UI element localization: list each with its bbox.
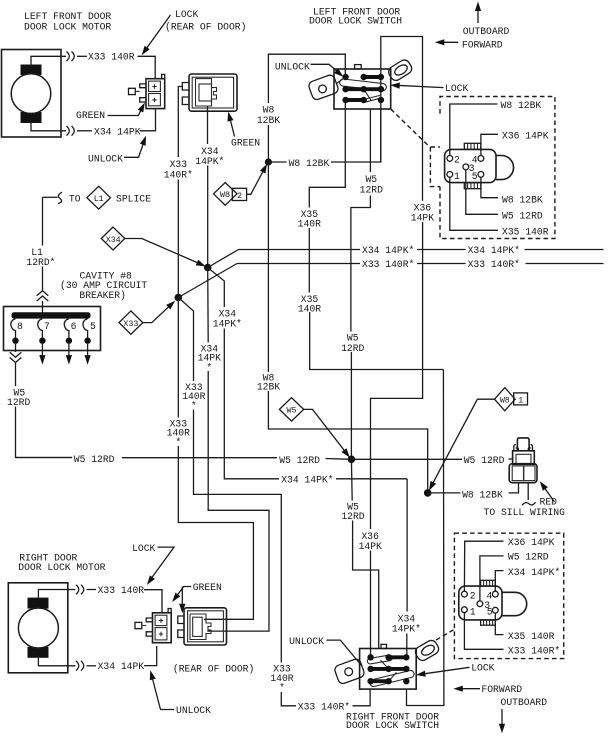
connector C1 pin 5 — [478, 172, 484, 178]
svg-text:2: 2 — [454, 155, 460, 166]
label W5 12RD mid — [339, 332, 366, 354]
connector C2 pin 4 — [492, 591, 498, 597]
svg-text:1: 1 — [470, 606, 476, 617]
splice symbol X33 — [119, 298, 177, 334]
svg-text:12BK: 12BK — [257, 382, 280, 393]
svg-text:W5 12RD: W5 12RD — [74, 454, 115, 465]
switch S1 contact dots — [342, 74, 384, 103]
pin 1 lead X33 140R* — [464, 612, 503, 649]
forward arrow (top) — [435, 39, 503, 50]
label L1 12RD* — [25, 246, 59, 268]
switch S2 left ear hole — [345, 668, 353, 676]
wire X35 140R from switch col1 bottom — [309, 100, 345, 208]
svg-text:*: * — [206, 362, 212, 373]
wire X34 motor lead (bottom) — [38, 658, 75, 666]
wire X33 140R to connector — [138, 56, 156, 78]
svg-text:140R: 140R — [298, 303, 321, 314]
circuit breaker block — [4, 307, 101, 351]
svg-text:OUTBOARD: OUTBOARD — [463, 26, 510, 37]
svg-text:14PK*: 14PK* — [392, 624, 421, 635]
label X33 140R* (1) — [360, 258, 417, 270]
wire X34 branch via diagonal to staircase — [208, 268, 225, 308]
pin 1 lead X35 140R — [450, 177, 498, 230]
svg-text:W5 12RD: W5 12RD — [464, 455, 505, 466]
mounting plate rectangle — [381, 37, 423, 201]
wire W5 12RD trunk vertical — [350, 331, 353, 458]
wire X36 into bottom switch — [370, 551, 372, 658]
svg-text:OUTBOARD: OUTBOARD — [501, 697, 548, 708]
wire X34 14PK to connector — [140, 109, 156, 131]
connector C2 pin 2 — [462, 591, 468, 597]
svg-text:1: 1 — [518, 396, 523, 405]
breaker pin 6 hook — [64, 319, 69, 338]
forward arrow (bottom) — [453, 684, 522, 695]
svg-text:X35 140R: X35 140R — [502, 227, 549, 238]
label X33 140R * (x178) — [166, 418, 193, 448]
svg-text:6: 6 — [71, 321, 77, 332]
label: left front door door lock motor — [24, 11, 111, 33]
switch S2 body — [360, 649, 417, 690]
breaker pin 7 hook — [38, 319, 43, 338]
pointer GREEN (bottom) — [170, 582, 222, 613]
svg-text:W5 12RD: W5 12RD — [279, 455, 320, 466]
svg-text:GREEN: GREEN — [76, 110, 105, 121]
switch S1 contact bar row3 — [346, 98, 364, 102]
wire W5 12RD from breaker pin 8 — [15, 344, 17, 352]
svg-text:X34 14PK: X34 14PK — [94, 127, 141, 138]
svg-text:LOCK: LOCK — [132, 543, 155, 554]
svg-text:TO SILL WIRING: TO SILL WIRING — [484, 507, 566, 518]
connector chevrons on L1 wire — [37, 291, 49, 301]
diagonal from node A to X34 feed wire — [208, 250, 239, 268]
connector C2 pin 1 — [462, 607, 468, 613]
svg-text:12RD: 12RD — [341, 343, 364, 354]
svg-text:SPLICE: SPLICE — [116, 194, 151, 205]
label X34 14PK* (2) — [466, 244, 525, 256]
connector C1 body — [445, 143, 514, 188]
wire X33 140R — [77, 55, 87, 57]
label X33 140R * (x193) — [181, 382, 208, 412]
motor B1 brush top — [21, 65, 42, 76]
pointer UNLOCK (motor X34 wire) — [88, 135, 149, 165]
wire X33 140R* horizontal — [237, 263, 604, 265]
svg-text:L1: L1 — [94, 195, 104, 204]
svg-text:X35 140R: X35 140R — [508, 631, 555, 642]
connector chevrons on X33 lead — [67, 52, 75, 62]
wire X34 down to bottom switch — [406, 479, 408, 612]
switch S2 left ear — [334, 658, 366, 685]
wire W8 12BK horizontal to col3 riser — [268, 161, 286, 163]
svg-text:14PK: 14PK — [359, 541, 382, 552]
connector chevrons on X34 lead — [67, 126, 75, 136]
wire X34 14PK — [77, 130, 92, 132]
svg-text:1: 1 — [454, 171, 460, 182]
motor-side connector (right door) — [135, 609, 171, 643]
svg-text:14PK*: 14PK* — [195, 156, 224, 167]
svg-text:140R: 140R — [298, 218, 321, 229]
pointer LOCK (rear of door) — [139, 9, 246, 57]
pin 4 lead X34 14PK* — [495, 571, 503, 592]
svg-text:12RD: 12RD — [7, 397, 30, 408]
svg-text:GREEN: GREEN — [231, 138, 260, 149]
pointer GREEN (harness connector) — [225, 111, 260, 149]
switch S1 body — [334, 69, 391, 109]
motor B1 brush bottom — [21, 112, 42, 123]
motor B2 armature circle — [18, 608, 58, 648]
wire X33 140R harness drop — [178, 87, 182, 158]
pointer RED — [537, 479, 557, 507]
label X34 14PK* (1) — [360, 244, 417, 256]
switch S1 top tab — [355, 65, 362, 69]
sill connector leads — [527, 483, 529, 500]
svg-text:W5: W5 — [287, 407, 297, 416]
wire X35 down right side to bottom switch — [407, 370, 444, 706]
svg-text:X33 140R*: X33 140R* — [298, 702, 350, 713]
svg-text:LOCK: LOCK — [445, 83, 468, 94]
wire X34 14PK harness drop — [207, 106, 209, 144]
svg-text:LOCK: LOCK — [471, 662, 494, 673]
svg-text:X33 140R: X33 140R — [88, 52, 135, 63]
junction node 1 (W5) — [348, 456, 356, 464]
svg-text:(REAR OF DOOR): (REAR OF DOOR) — [173, 663, 254, 674]
pin 3 lead W5 12RD — [466, 170, 498, 215]
svg-text:X33: X33 — [170, 159, 188, 170]
label X34 14PK* (2-line) — [213, 308, 243, 330]
switch S1 contact bar row1 — [364, 75, 381, 79]
motor B1 housing — [2, 50, 62, 138]
breaker pin 8 hook — [11, 319, 16, 338]
svg-text:X33 140R: X33 140R — [98, 585, 145, 596]
diagonal from node B to X33 feed wire — [178, 264, 237, 298]
connector C1 pin 4 — [478, 156, 484, 162]
wire W5 12RD from switch col2 — [369, 109, 371, 172]
wire W8 12BK to sill connector — [428, 492, 461, 494]
svg-text:14PK: 14PK — [411, 213, 434, 224]
pin 3 lead W5 12RD — [480, 556, 504, 601]
label X33 140R* — [162, 158, 194, 181]
dashed box outline — [440, 97, 555, 239]
svg-text:DOOR LOCK MOTOR: DOOR LOCK MOTOR — [24, 22, 111, 33]
pointer LOCK (bottom switch) — [415, 662, 494, 678]
svg-text:W8: W8 — [220, 191, 230, 200]
wire X33 motor lead — [31, 56, 66, 64]
connector C1 pin 3 — [463, 164, 469, 170]
wire W8 12BK junction to sill — [267, 162, 269, 372]
wire W8 12BK switch col1 to junction — [268, 54, 345, 103]
svg-text:UNLOCK: UNLOCK — [88, 154, 123, 165]
label X34 14PK* on bottom feed — [279, 474, 336, 486]
label X34 14PK* — [194, 145, 226, 168]
svg-text:12RD: 12RD — [341, 511, 364, 522]
wire X34 motor lead — [31, 123, 66, 131]
svg-text:140R*: 140R* — [164, 170, 193, 181]
symbol W8 splice diamond with 2 — [214, 162, 270, 205]
svg-text:2: 2 — [237, 192, 242, 201]
outboard arrow (bottom) — [499, 697, 547, 733]
wire X36 riser (plate right edge) with label — [422, 199, 424, 202]
junction node B (X33 tap) — [175, 294, 183, 302]
svg-text:UNLOCK: UNLOCK — [176, 705, 211, 716]
wire X33 140R* into switch bottom — [281, 692, 296, 706]
svg-text:W8 12BK: W8 12BK — [501, 100, 542, 111]
dashed box outline (bottom) — [454, 533, 563, 658]
pointer UNLOCK (bottom motor) — [147, 669, 211, 716]
svg-text:BREAKER): BREAKER) — [79, 290, 126, 301]
motor B2 brush top — [28, 598, 49, 609]
pointer UNLOCK (switch) — [275, 62, 345, 80]
motor B2 housing — [8, 583, 68, 673]
pin 2 lead X36 14PK — [464, 541, 503, 591]
pin 5 lead W8 12BK — [481, 177, 498, 198]
svg-text:X36 14PK: X36 14PK — [502, 131, 549, 142]
label W5 12RD upper — [360, 173, 385, 196]
label: right front door door lock switch — [346, 711, 439, 731]
wire X33 motor lead (bottom) — [38, 590, 75, 598]
junction node W8 — [265, 158, 272, 165]
svg-text:X34 14PK*: X34 14PK* — [281, 475, 333, 486]
svg-text:W8: W8 — [500, 397, 510, 406]
label X33 140R * (staircase x281) — [269, 663, 296, 694]
outboard arrow (top) — [463, 2, 510, 38]
wire X33 branch via diagonal to staircase — [178, 298, 193, 382]
switch S2 right ear — [413, 638, 440, 662]
connector C2 body — [459, 580, 527, 625]
motor-side connector (left front door) — [129, 74, 165, 108]
svg-text:X34 14PK*: X34 14PK* — [362, 245, 414, 256]
label X34 14PK* (bottom switch) — [392, 612, 421, 635]
label X36 14PK right — [407, 201, 438, 224]
label cavity #8 — [60, 271, 147, 301]
svg-text:7: 7 — [44, 321, 50, 332]
breaker pin 7 arrow — [41, 344, 43, 359]
svg-text:(REAR OF DOOR): (REAR OF DOOR) — [165, 22, 246, 33]
svg-text:X33 140R*: X33 140R* — [508, 646, 560, 657]
svg-text:*: * — [279, 683, 285, 694]
pin 5 lead X35 140R — [495, 613, 503, 635]
pin 4 lead X36 14PK — [481, 134, 498, 155]
label X35 140R upper — [295, 208, 325, 229]
switch S2 contact diagonals — [367, 655, 396, 681]
breaker bus bar — [12, 312, 91, 318]
svg-text:*: * — [191, 400, 197, 411]
label W5 12RD (right, to sill) — [462, 454, 510, 466]
svg-text:W5 12RD: W5 12RD — [502, 211, 543, 222]
motor B1 armature circle — [11, 74, 51, 114]
wire X34 branch from node A down — [207, 268, 210, 343]
connector C1 pin 2 — [447, 156, 453, 162]
svg-text:W8 12BK: W8 12BK — [462, 490, 503, 501]
svg-text:12BK: 12BK — [257, 115, 280, 126]
label W5 12RD lower — [340, 501, 366, 522]
breaker pin 5 arrow — [87, 344, 89, 359]
junction node A (X34 tap) — [204, 264, 212, 272]
junction node 2 (W8) — [424, 489, 432, 497]
svg-text:X33 140R*: X33 140R* — [362, 259, 414, 270]
harness GREEN connector (right door) — [178, 608, 227, 645]
svg-text:LEFT FRONT DOOR: LEFT FRONT DOOR — [24, 11, 111, 22]
wire L1 12RD vertical — [42, 197, 44, 245]
label W5 12RD (center) — [278, 454, 326, 467]
label: left front door door lock switch — [309, 7, 402, 27]
svg-text:FORWARD: FORWARD — [481, 684, 522, 695]
splice symbol X34 — [101, 227, 207, 269]
svg-text:UNLOCK: UNLOCK — [275, 62, 310, 73]
pointer LOCK (bottom motor) — [132, 543, 174, 587]
pin 2 lead W8 12BK — [450, 104, 498, 156]
svg-text:X34 14PK*: X34 14PK* — [508, 567, 560, 578]
label X35 140R lower — [295, 293, 325, 314]
switch S2 actuator capsule — [370, 670, 414, 686]
svg-text:*: * — [175, 437, 181, 448]
svg-text:DOOR LOCK SWITCH: DOOR LOCK SWITCH — [346, 720, 439, 731]
switch S1 right ear — [387, 58, 414, 82]
svg-text:GREEN: GREEN — [193, 582, 222, 593]
svg-text:X34 14PK: X34 14PK — [98, 661, 145, 672]
svg-text:12RD*: 12RD* — [26, 257, 55, 268]
switch S2 top tab — [381, 644, 387, 648]
splice symbol W5 with arrow — [279, 398, 352, 460]
label: right door door lock motor — [18, 553, 105, 574]
switch S1 left ear — [308, 74, 340, 101]
svg-text:12RD: 12RD — [360, 185, 383, 196]
svg-text:W8 12BK: W8 12BK — [502, 195, 543, 206]
breaker pin 6 arrow — [68, 344, 70, 359]
switch S2 contact bar row1 — [389, 655, 407, 659]
switch S1 left ear hole — [319, 85, 327, 93]
breaker pin dots — [12, 338, 91, 344]
svg-text:FORWARD: FORWARD — [462, 40, 503, 51]
svg-text:RED: RED — [540, 497, 558, 508]
switch S1 contact bar row2 — [346, 87, 381, 91]
svg-text:8: 8 — [17, 321, 23, 332]
svg-text:14PK*: 14PK* — [213, 319, 242, 330]
pointer LOCK (switch) — [390, 82, 468, 94]
wire W5 below node 1 — [350, 459, 353, 500]
label X34 14PK * (3-line) — [196, 343, 223, 373]
svg-text:X33 140R*: X33 140R* — [468, 259, 520, 270]
switch S2 contact dots — [367, 654, 409, 684]
svg-text:X36 14PK: X36 14PK — [508, 537, 555, 548]
svg-text:W8 12BK: W8 12BK — [289, 158, 330, 169]
splice symbol L1 — [87, 186, 111, 209]
label W8 12BK mid — [255, 373, 284, 393]
label W5 12RD (breaker leg) — [5, 387, 33, 408]
connector C1 pin 1 — [447, 172, 453, 178]
motor B2 brush bottom — [28, 647, 49, 658]
wire W5 12RD horizontal — [16, 457, 73, 459]
dashed link switch to box — [436, 630, 453, 640]
svg-text:W5 12RD: W5 12RD — [508, 552, 549, 563]
switch S1 right ear hole — [393, 63, 409, 77]
wire X34 14PK* horizontal — [239, 249, 604, 251]
switch S2 contact bar row2 — [371, 667, 407, 671]
harness GREEN connector (left front door) — [182, 74, 237, 111]
svg-text:X34 14PK*: X34 14PK* — [468, 245, 520, 256]
wire to L1 splice with break squiggle — [43, 196, 58, 198]
switch S1 contact diagonals — [337, 77, 383, 102]
pointer UNLOCK (bottom switch) — [289, 636, 361, 666]
label W8 12BK vertical — [254, 104, 283, 127]
dashed link switch to connector box — [391, 109, 430, 147]
svg-text:X33: X33 — [123, 320, 138, 329]
svg-text:UNLOCK: UNLOCK — [289, 636, 324, 647]
wire X33 branch from node B down — [177, 298, 179, 418]
switch S1 actuator capsule — [340, 79, 387, 91]
svg-text:2: 2 — [470, 590, 476, 601]
svg-text:TO: TO — [69, 194, 81, 205]
switch S2 right ear hole — [420, 643, 436, 657]
switch S2 contact bar row3 — [371, 679, 389, 683]
label X36 14PK lower — [357, 530, 385, 553]
pointer GREEN (motor connector) — [76, 101, 148, 121]
splice symbol W8 with box 1 and arrow — [426, 388, 527, 493]
svg-text:DOOR LOCK MOTOR: DOOR LOCK MOTOR — [18, 562, 105, 573]
svg-text:LOCK: LOCK — [175, 9, 198, 20]
breaker pin 5 hook — [83, 319, 88, 338]
label W5 12RD (left) — [72, 453, 122, 466]
connector C2 pin 3 — [477, 601, 483, 607]
svg-text:5: 5 — [472, 171, 478, 182]
svg-text:5: 5 — [487, 607, 493, 618]
svg-text:5: 5 — [90, 321, 96, 332]
connector C2 pin 5 — [492, 607, 498, 613]
svg-text:X34: X34 — [106, 236, 121, 245]
svg-text:DOOR LOCK SWITCH: DOOR LOCK SWITCH — [309, 16, 402, 27]
label X33 140R* (2) — [466, 258, 526, 270]
